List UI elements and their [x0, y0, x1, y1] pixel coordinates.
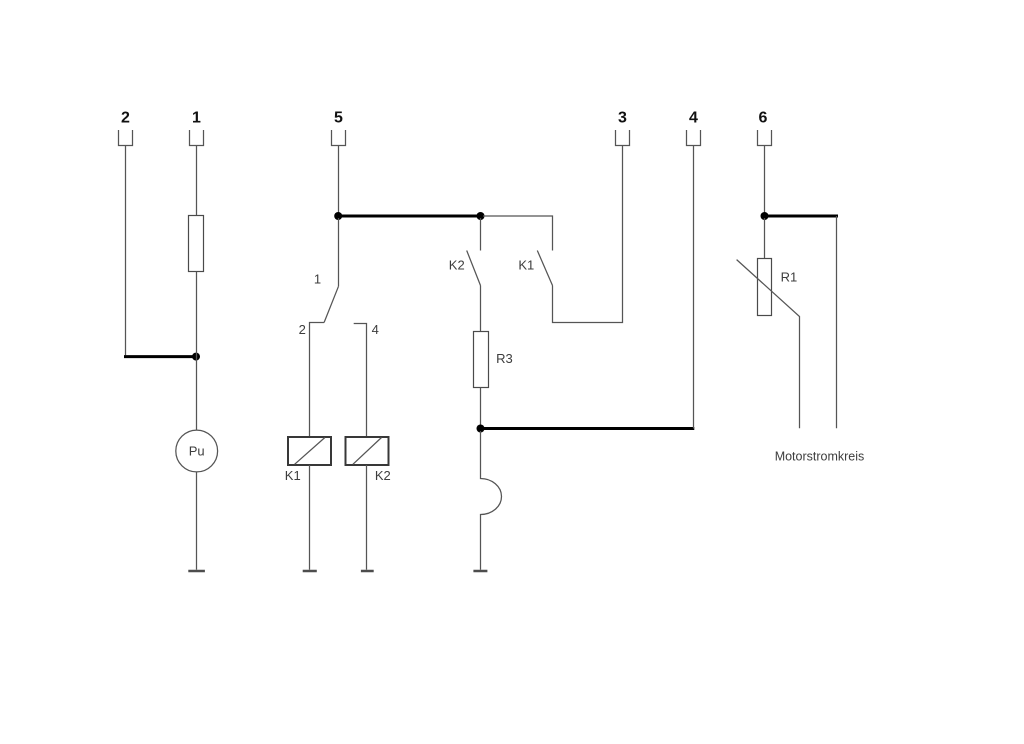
svg-text:K2: K2: [375, 468, 391, 483]
svg-text:1: 1: [314, 272, 321, 287]
svg-text:Motorstromkreis: Motorstromkreis: [775, 449, 865, 463]
svg-text:2: 2: [299, 322, 306, 337]
svg-text:Pu: Pu: [189, 444, 205, 459]
svg-text:2: 2: [121, 110, 130, 127]
svg-text:K1: K1: [518, 258, 534, 273]
svg-text:5: 5: [334, 110, 343, 127]
svg-text:4: 4: [372, 322, 379, 337]
svg-text:1: 1: [192, 110, 201, 127]
svg-text:3: 3: [618, 110, 627, 127]
svg-text:K2: K2: [449, 258, 465, 273]
svg-text:K1: K1: [285, 468, 301, 483]
svg-text:6: 6: [759, 110, 768, 127]
svg-text:4: 4: [689, 110, 698, 127]
svg-text:R3: R3: [496, 351, 513, 366]
svg-text:R1: R1: [781, 270, 798, 285]
